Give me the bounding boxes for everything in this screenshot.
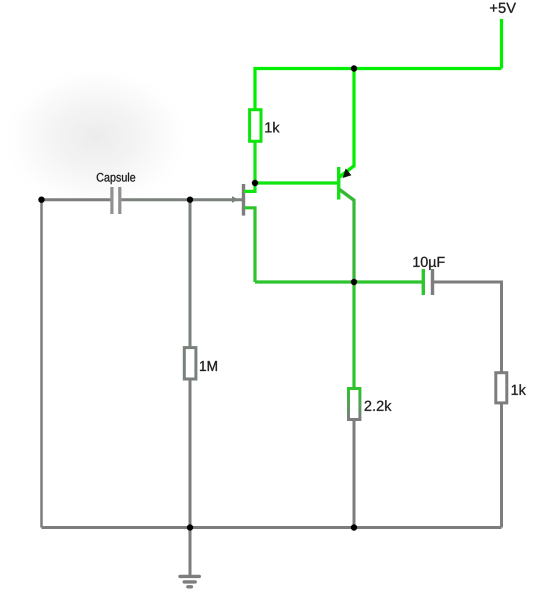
wire R2 to bottom rail xyxy=(189,379,192,528)
node bottom rail left junction xyxy=(187,524,193,530)
capacitor C2 right plate xyxy=(431,269,434,295)
JFET Q1 gate arrow xyxy=(232,196,238,203)
label R4 1k xyxy=(512,384,526,395)
wire base xyxy=(255,181,337,184)
node gate junction xyxy=(187,197,193,203)
node drain/base junction xyxy=(252,180,258,186)
wire R1 to drain node xyxy=(253,142,256,184)
wire top rail to R1 xyxy=(253,67,256,109)
node bottom rail right junction xyxy=(351,524,357,530)
+5V supply label xyxy=(490,3,516,13)
wire Q1 source down xyxy=(253,214,256,282)
wire R3 to bottom rail xyxy=(353,420,356,528)
wire output to R3 xyxy=(352,282,355,389)
ground bar 1 xyxy=(180,575,199,578)
node left corner xyxy=(38,197,44,203)
ground bar 2 xyxy=(184,580,195,583)
wire left to C1 xyxy=(42,198,111,201)
wire C1 to gate node xyxy=(121,198,190,201)
wire C2 to right rail xyxy=(434,281,502,284)
resistor R4 1k xyxy=(496,373,507,403)
wire bottom rail xyxy=(42,526,502,529)
ground bar 3 xyxy=(188,585,192,588)
wire R4 to bottom rail xyxy=(500,403,503,528)
resistor R3 2.2k xyxy=(349,389,360,420)
transistor Q2 emitter arrow xyxy=(343,168,352,178)
wire Q2 emitter to top rail xyxy=(352,69,355,168)
JFET Q1 source stub xyxy=(244,208,255,215)
label R2 1M xyxy=(200,361,217,371)
JFET Q1 drain stub xyxy=(244,183,255,191)
transistor Q2 PNP base bar xyxy=(337,167,340,200)
label capacitor C2 10uF xyxy=(413,257,444,270)
node top rail junction xyxy=(351,65,357,71)
resistor R1 1k xyxy=(250,110,261,142)
wire left rail xyxy=(40,200,43,528)
label R3 2.2k xyxy=(365,400,392,411)
label capacitor C1 Capsule xyxy=(97,173,136,185)
capacitor C1 right plate xyxy=(118,187,121,214)
capacitor C2 left plate xyxy=(422,269,425,295)
JFET Q1 gate lead xyxy=(190,198,242,201)
wire right rail down to R4 xyxy=(500,281,503,373)
ground lead xyxy=(189,528,192,576)
label R1 1k xyxy=(265,122,279,132)
wire Q2 collector down xyxy=(352,199,355,282)
wire gate node to R2 xyxy=(189,200,192,348)
wire output node xyxy=(255,280,422,283)
transistor Q2 emitter diagonal xyxy=(340,166,355,177)
wire +5V post down xyxy=(500,19,503,69)
wire top rail xyxy=(255,67,502,70)
transistor Q2 collector diagonal xyxy=(340,190,355,201)
capacitor C1 left plate xyxy=(110,187,113,214)
JFET Q1 channel bar xyxy=(242,184,245,216)
cursor smudge artifact xyxy=(4,68,188,208)
node output junction xyxy=(351,279,357,285)
resistor R2 1M xyxy=(184,348,196,379)
